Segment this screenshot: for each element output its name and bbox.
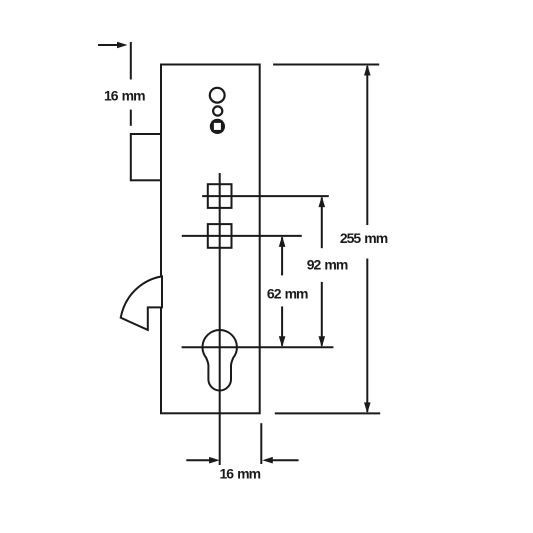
- svg-text:16 mm: 16 mm: [220, 465, 261, 481]
- fixing hole small: [213, 106, 222, 115]
- bottom 16 mm extension line: [260, 423, 262, 464]
- label 16 mm top: [102, 83, 147, 108]
- vertical centre line: [219, 173, 221, 465]
- dimension line 255 mm: [366, 66, 368, 412]
- follower square spindle hole: [213, 122, 222, 131]
- hook bolt: [121, 276, 162, 330]
- arrowhead 92 mm top: [319, 196, 326, 207]
- spindle square 2: [208, 224, 232, 248]
- bottom extension line (255 mm, lower): [275, 412, 380, 414]
- svg-text:62 mm: 62 mm: [267, 285, 308, 301]
- arrowhead 92 mm bottom: [319, 336, 326, 347]
- horizontal line through spindle square 1: [202, 195, 329, 197]
- label 92 mm: [304, 248, 350, 282]
- top extension line (255 mm, upper): [273, 64, 379, 66]
- top-left arrow shaft: [98, 44, 118, 46]
- arrowhead 255 mm top: [364, 65, 371, 76]
- lock body case: [161, 65, 260, 414]
- handle follower disc: [210, 119, 225, 134]
- spindle square 1: [208, 184, 232, 208]
- dimension line 62 mm: [281, 237, 283, 345]
- fixing hole large: [210, 88, 225, 103]
- svg-text:92 mm: 92 mm: [307, 257, 348, 273]
- latch bolt: [131, 134, 161, 180]
- arrowhead top-left pointing right: [117, 42, 128, 49]
- euro cylinder profile: [202, 330, 236, 390]
- svg-text:255 mm: 255 mm: [340, 230, 388, 246]
- horizontal line through cylinder centre: [182, 346, 334, 348]
- label 255 mm: [337, 225, 390, 259]
- follower inner relief: [212, 121, 222, 131]
- label 16 mm bottom: [220, 465, 261, 481]
- arrowhead 62 mm bottom: [279, 336, 286, 347]
- svg-text:16 mm: 16 mm: [104, 87, 145, 103]
- arrowhead 62 mm top: [279, 236, 286, 247]
- arrowhead bottom 16 mm left, pointing right: [209, 457, 220, 464]
- arrowhead 255 mm bottom: [364, 402, 371, 413]
- dimension line 92 mm: [321, 198, 323, 346]
- horizontal line through spindle square 2: [182, 235, 302, 237]
- bottom 16 mm arrow shafts: [186, 459, 211, 461]
- arrowhead bottom 16 mm right, pointing left: [262, 457, 273, 464]
- top 16 mm extension dash line: [130, 42, 132, 80]
- label 62 mm: [264, 275, 310, 306]
